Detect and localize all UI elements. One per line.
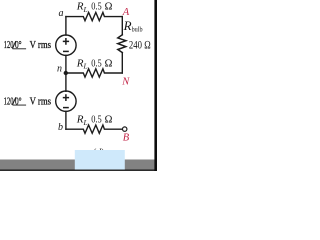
svg-text:a: a: [59, 8, 64, 19]
svg-text:A: A: [122, 7, 130, 18]
svg-text:Ω: Ω: [105, 58, 113, 69]
svg-text:240 Ω: 240 Ω: [129, 39, 151, 51]
svg-text:0.5: 0.5: [91, 2, 102, 13]
svg-text:V rms: V rms: [30, 96, 51, 107]
svg-text:0.5: 0.5: [91, 58, 102, 69]
svg-text:N: N: [121, 76, 130, 87]
svg-text:Ω: Ω: [105, 115, 113, 126]
svg-text:0°: 0°: [15, 96, 22, 107]
svg-text:0.5: 0.5: [91, 115, 102, 126]
svg-text:120: 120: [4, 96, 14, 107]
svg-text:R: R: [123, 18, 132, 33]
svg-text:bulb: bulb: [132, 24, 143, 33]
svg-text:Ω: Ω: [105, 2, 113, 13]
svg-text:0°: 0°: [15, 40, 22, 51]
svg-text:n: n: [57, 64, 62, 75]
svg-text:b: b: [58, 122, 63, 133]
svg-text:V rms: V rms: [30, 40, 51, 51]
svg-text:120: 120: [4, 40, 14, 51]
svg-text:B: B: [123, 132, 130, 143]
